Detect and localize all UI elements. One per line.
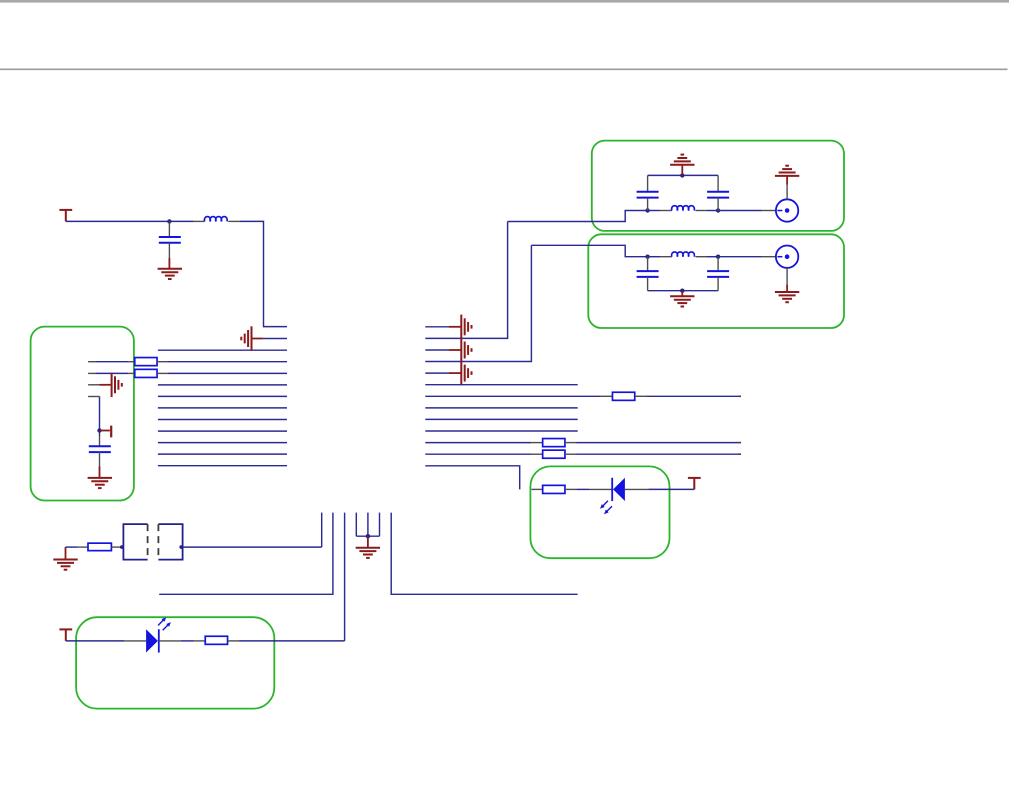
pin nub R5 net end bbox=[739, 453, 742, 455]
right bus wire 5 bbox=[425, 372, 449, 374]
pin C3 top bbox=[647, 175, 649, 191]
LED D2 bbox=[146, 629, 158, 652]
right bus wire 13 to LED riser bbox=[425, 466, 519, 490]
inductor L3 bbox=[672, 252, 695, 257]
supply symbol (LED D1) bbox=[688, 478, 701, 490]
left bus wire 7 bbox=[158, 419, 287, 421]
chassis ground GND6 bbox=[461, 338, 471, 362]
pin riser E1 bbox=[355, 513, 357, 537]
wire to connector J1 bbox=[718, 210, 762, 212]
pin P4 line4 bbox=[88, 396, 99, 398]
LED D1 arrows bbox=[602, 501, 608, 507]
wire VIN horizontal bbox=[66, 220, 170, 222]
pin D2 cathode bbox=[159, 640, 181, 642]
wire GND4 pin bbox=[252, 338, 263, 340]
capacitor C4 bbox=[707, 191, 729, 193]
pin GND6 bbox=[449, 349, 461, 351]
wire junction to L1 bbox=[169, 220, 193, 222]
connector X2 housing bbox=[158, 524, 182, 560]
pin nub R3 net end bbox=[739, 395, 742, 397]
pin R1 left bbox=[128, 361, 135, 363]
resistor R2 bbox=[135, 369, 157, 377]
wire line1 to R1 bbox=[96, 361, 128, 363]
right bus wire 8 bbox=[425, 407, 577, 409]
pin riser E3 bbox=[379, 513, 381, 537]
right bus wire 9 bbox=[425, 418, 577, 420]
left bus wire 5 bbox=[158, 395, 287, 397]
inductor L2 bbox=[672, 206, 695, 211]
resistor R5 bbox=[543, 450, 565, 458]
pin C5 top bbox=[647, 257, 649, 271]
pin L3 left bbox=[660, 256, 672, 258]
pin R5 left bbox=[531, 453, 543, 455]
pin J2 bbox=[762, 256, 776, 258]
pin R1 right bbox=[157, 361, 168, 363]
wire X2 to riser A bbox=[183, 546, 322, 548]
pin R2 right bbox=[157, 372, 168, 374]
pin L3 right bbox=[695, 256, 707, 258]
wire gnd tie bar bbox=[356, 535, 379, 537]
wire to connector J2 bbox=[718, 256, 762, 258]
ground GND13 bbox=[53, 560, 77, 570]
pin dot X1 bbox=[120, 545, 124, 549]
pin L1 left bbox=[193, 220, 205, 222]
right bus wire 10 bbox=[425, 430, 577, 432]
pin P2 line2 bbox=[88, 372, 96, 374]
pin nub R4 net end bbox=[739, 442, 742, 444]
wire to L2 bbox=[648, 210, 660, 212]
pin C4 top bbox=[717, 175, 719, 191]
pin riser C to LED wire bbox=[344, 513, 346, 641]
wire R6 to D1 bbox=[577, 488, 589, 490]
pin P3 line3 bbox=[88, 384, 99, 386]
pin C2 top bbox=[99, 436, 101, 446]
ground GND8 (inverted) bbox=[670, 155, 694, 165]
wire line3 to chassis gnd bbox=[100, 384, 112, 386]
resistor R8 bbox=[205, 636, 227, 644]
ground GND3 bbox=[88, 478, 112, 488]
wire filter2 input bbox=[531, 245, 647, 256]
pin riser A bbox=[321, 513, 323, 548]
wire gnd tie to GND stem bbox=[367, 536, 369, 548]
pin D1 cathode bbox=[589, 488, 613, 490]
wire J1 shield to gnd bbox=[786, 176, 788, 185]
junction filter2 left bbox=[645, 255, 649, 259]
chassis ground GND5 bbox=[461, 315, 471, 339]
page top bar bbox=[0, 0, 1009, 3]
resistor R7 bbox=[88, 543, 111, 551]
pin C1 bottom bbox=[168, 243, 170, 258]
wire top rail to GND stem bbox=[681, 165, 683, 176]
pin L1 right bbox=[228, 220, 240, 222]
wire R1 to bus bbox=[168, 361, 287, 363]
pin C6 top bbox=[717, 257, 719, 271]
pin R6 right bbox=[565, 488, 577, 490]
chassis ground GND7 bbox=[461, 361, 471, 385]
pin R5 right bbox=[565, 453, 577, 455]
pin J2 shield bbox=[786, 268, 788, 285]
pin C1 top bbox=[168, 221, 170, 237]
pin J1 bbox=[762, 210, 776, 212]
pin L2 left bbox=[660, 210, 672, 212]
pin J1 shield bbox=[786, 185, 788, 200]
pin R8 right bbox=[228, 640, 240, 642]
wire R8 to riser C bbox=[240, 640, 345, 642]
junction node at C1 bbox=[167, 219, 171, 223]
junction gnd tie bbox=[366, 534, 370, 538]
resistor R4 bbox=[543, 439, 565, 447]
top rail filter1 bbox=[648, 174, 719, 176]
connector X1 housing bbox=[123, 524, 147, 560]
wire J2 shield to gnd bbox=[786, 285, 788, 292]
junction filter2 right bbox=[716, 255, 720, 259]
green highlight box (LED D1) bbox=[530, 466, 669, 558]
inductor L1 bbox=[204, 217, 227, 222]
green highlight box (left) bbox=[31, 327, 134, 501]
bottom rail filter2 bbox=[648, 290, 719, 292]
wire line4 down to node bbox=[99, 397, 101, 437]
wire C1 to GND stem bbox=[168, 258, 170, 269]
ground GND12 bbox=[356, 548, 380, 558]
left bus wire 1 bbox=[158, 349, 287, 351]
junction filter1 right bbox=[716, 208, 720, 212]
pin C5 bottom bbox=[647, 277, 649, 291]
pin R4 left bbox=[531, 442, 543, 444]
wire L2 to junction bbox=[707, 210, 718, 212]
wire R5 right bbox=[577, 453, 739, 455]
capacitor C1 bbox=[159, 236, 181, 238]
pin C4 bottom bbox=[717, 198, 719, 211]
wire filter1 input bbox=[508, 211, 648, 222]
wire C2 to GND stem bbox=[99, 467, 101, 478]
capacitor C3 bbox=[637, 191, 659, 193]
left bus wire 11 bbox=[158, 465, 287, 467]
connector J2 bbox=[776, 246, 798, 268]
pin R6 left bbox=[532, 488, 543, 490]
left bus wire 4 bbox=[158, 384, 287, 386]
right bus wire 4 to riser bbox=[425, 245, 531, 361]
junction node VREF bbox=[97, 428, 101, 432]
green highlight box (LED D2) bbox=[76, 617, 274, 708]
pin R3 left bbox=[601, 395, 613, 397]
pin D1 anode bbox=[625, 488, 648, 490]
pin L2 right bbox=[695, 210, 707, 212]
supply bar symbol bbox=[110, 426, 112, 438]
capacitor C5 bbox=[637, 270, 659, 272]
pin D2 anode bbox=[124, 640, 146, 642]
wire bottom rail to GND stem bbox=[681, 291, 683, 297]
supply symbol VIN (top-left) bbox=[59, 210, 72, 222]
wire L1 to corner bbox=[240, 221, 287, 326]
header divider line bbox=[0, 68, 1008, 70]
pin riser E2 bbox=[367, 513, 369, 537]
LED D2 arrows bbox=[158, 619, 165, 626]
right bus wire 11 to R4 bbox=[425, 442, 531, 444]
wire line2 to R2 bbox=[96, 372, 128, 374]
resistor R1 bbox=[135, 358, 157, 366]
wire GND13 stem bbox=[65, 547, 67, 559]
resistor R3 bbox=[612, 392, 634, 400]
pin R8 left bbox=[194, 640, 206, 642]
pin C2 bottom bbox=[99, 451, 101, 466]
pin dot X2 bbox=[179, 545, 183, 549]
right bus wire 2 to riser bbox=[425, 222, 507, 339]
ground GND11 bbox=[775, 292, 799, 302]
ground GND10 bbox=[670, 296, 694, 306]
wire R3 right bbox=[647, 395, 739, 397]
pin riser D to right stub bbox=[391, 513, 577, 595]
right bus wire 3 bbox=[425, 349, 449, 351]
junction top rail bbox=[680, 173, 684, 177]
connector J1 bbox=[776, 199, 798, 221]
left bus wire 8 bbox=[158, 430, 287, 432]
pin C6 bottom bbox=[717, 277, 719, 291]
wire supply to D2 bbox=[66, 640, 124, 642]
pin C3 bottom bbox=[647, 198, 649, 211]
junction filter1 left bbox=[645, 208, 649, 212]
right bus wire 6 bbox=[425, 384, 577, 386]
pin R4 right bbox=[565, 442, 577, 444]
wire R4 right bbox=[577, 442, 739, 444]
left bus wire 10 bbox=[158, 453, 287, 455]
pin P1 line1 bbox=[88, 361, 96, 363]
supply stub VREF bar bbox=[100, 430, 110, 432]
ground GND1 bbox=[158, 269, 182, 279]
wire D2 to R8 bbox=[181, 640, 194, 642]
pin R3 right bbox=[635, 395, 647, 397]
capacitor C6 bbox=[707, 270, 729, 272]
right bus wire 1 bbox=[425, 326, 449, 328]
wire D1 to supply bbox=[648, 488, 694, 490]
pin R7 left bbox=[77, 546, 88, 548]
junction bottom rail bbox=[680, 289, 684, 293]
right bus wire 7 to R3 bbox=[425, 395, 600, 397]
pin GND7 bbox=[449, 372, 461, 374]
green highlight box (filter 1) bbox=[592, 141, 844, 231]
left bus wire 6 bbox=[158, 407, 287, 409]
pin R2 left bbox=[128, 372, 135, 374]
wire gnd to R7 bbox=[66, 546, 78, 548]
chassis ground GND4 (mirrored) bbox=[241, 326, 251, 350]
chassis ground GND2 bbox=[112, 373, 122, 397]
resistor R6 bbox=[543, 485, 565, 493]
pin riser B to bottom stub bbox=[159, 513, 333, 595]
wire R2 to bus bbox=[168, 372, 287, 374]
green highlight box (filter 2) bbox=[588, 234, 844, 328]
LED D1 bbox=[613, 478, 625, 501]
ground GND9 (inverted) bbox=[775, 166, 799, 176]
wire to L3 bbox=[648, 256, 660, 258]
pin GND5 bbox=[449, 326, 461, 328]
supply symbol (LED D2) bbox=[59, 629, 72, 641]
wire L3 to junction bbox=[707, 256, 718, 258]
capacitor C2 bbox=[89, 445, 111, 447]
pin R7 right bbox=[112, 546, 124, 548]
right bus wire 12 to R5 bbox=[425, 453, 531, 455]
left bus wire 9 bbox=[158, 442, 287, 444]
wire GND4 to bus end bbox=[263, 338, 287, 340]
